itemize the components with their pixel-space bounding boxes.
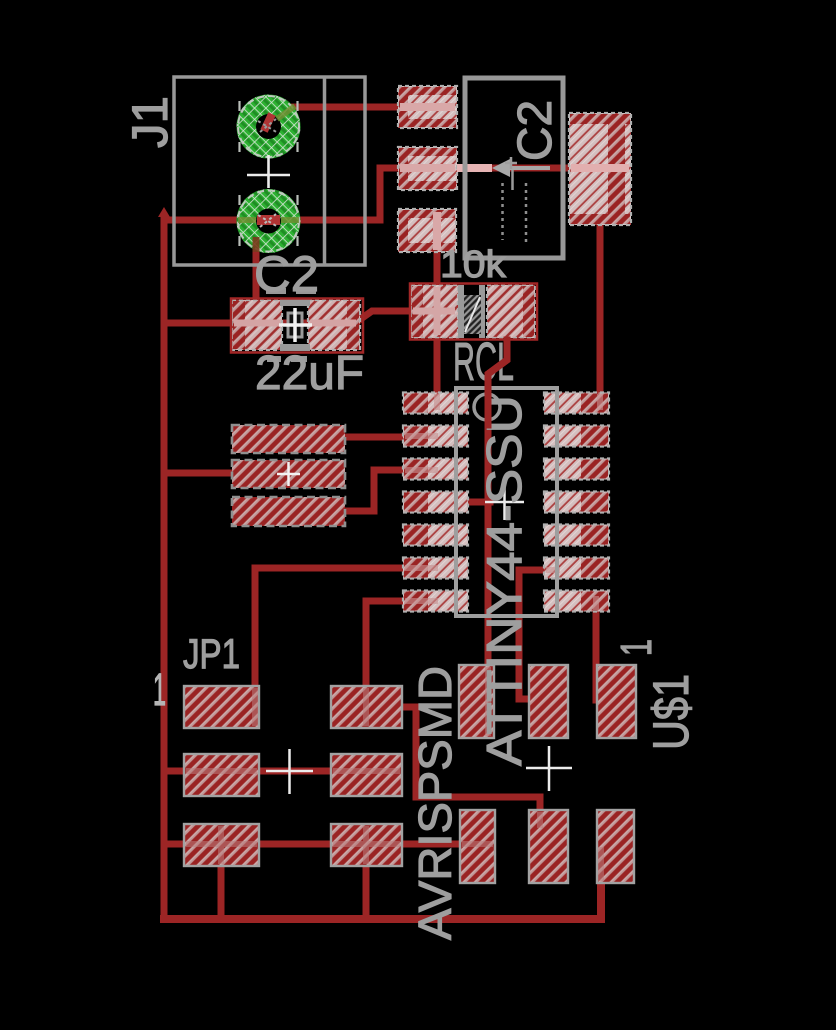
pad IC2-A <box>398 86 457 128</box>
US1 origin cross <box>526 746 572 791</box>
label 10k <box>440 244 507 286</box>
svg-text:AVRISPSMD: AVRISPSMD <box>409 666 461 940</box>
wire VCC from J1 pad1 to IC2 pad A <box>268 107 430 126</box>
junction arrow at GND corner <box>158 207 170 217</box>
IC2 tiny text columns <box>503 170 527 242</box>
resistor R1 keepout outline <box>410 284 537 340</box>
svg-text:1: 1 <box>612 639 661 656</box>
IC U1 right pads pins 8-14 <box>544 393 609 612</box>
pad IC2-B <box>398 147 457 190</box>
resistor R1 right pad <box>487 285 535 338</box>
IC2 polarity arrow <box>492 159 550 177</box>
J1 pad 1 through-hole <box>237 95 301 159</box>
wire GND left rail vertical <box>161 216 168 919</box>
resistor R1 silkscreen center <box>458 285 485 338</box>
resonator Q1 center cross <box>277 462 300 486</box>
capacitor C2 silkscreen <box>266 288 316 362</box>
label ATTINY44-SSU rotated <box>478 395 532 766</box>
trace highlight over C2 pads <box>234 320 356 327</box>
resonator Q1 pad1 <box>232 425 345 453</box>
svg-text:1: 1 <box>153 664 166 715</box>
label JP1 <box>183 630 240 677</box>
wire JP1 bottom row to US1 pad B1 <box>164 841 477 848</box>
wire U1 pin8 to US1 pad T3 <box>593 612 600 700</box>
trace highlights over US1 pads <box>462 667 601 881</box>
wire GND from J1 pad2 to IC2 pad B riser <box>164 168 612 220</box>
wire R1 right pad down to US1 pad T1 <box>488 336 507 700</box>
pad IC2-C <box>398 209 456 252</box>
JP1 origin cross <box>266 749 313 794</box>
wire Q1 pad2 to GND rail <box>164 470 238 477</box>
IC U1 origin cross <box>485 484 524 520</box>
trace highlight over IC2 pad B <box>400 164 492 172</box>
svg-text:JP1: JP1 <box>183 630 240 677</box>
wire Q1 pad3 to U1 pin3 <box>341 470 428 511</box>
wire Q1 pad1 to U1 pin2 <box>341 434 428 441</box>
label RCL <box>453 332 514 392</box>
wire U1 pin4 stub <box>468 499 490 506</box>
header JP1 pads <box>184 686 402 866</box>
capacitor C2 left pad <box>232 300 282 350</box>
wire JP1 pad5 drop <box>218 862 225 919</box>
connector US1 top pads <box>459 665 636 738</box>
label C2 (IC2) rotated <box>509 100 562 161</box>
label 1 (JP1 pin1) <box>153 664 166 715</box>
IC2 plus mark <box>505 157 517 169</box>
silkscreen circle below RCL <box>474 394 500 420</box>
trace highlight over IC2 pad C <box>433 212 441 250</box>
wire J1 pad2 to C2 left pad <box>256 221 268 312</box>
resonator Q1 pad2 <box>232 460 345 488</box>
svg-text:22uF: 22uF <box>255 347 364 400</box>
pad IC2 tab <box>569 113 631 225</box>
wire JP1 pad6 drop <box>363 862 370 919</box>
wire U1 pin9 to US1 pad T2 <box>519 570 558 699</box>
capacitor C2 keepout outline <box>231 299 363 353</box>
wire IC2 tab to U1 pin14 <box>597 222 604 403</box>
trace highlight over IC2 pad A <box>400 103 455 111</box>
trace highlight over IC2 tab <box>571 164 629 172</box>
IC2 silkscreen body <box>465 78 563 258</box>
trace highlights over JP1 pads <box>186 688 400 864</box>
wire U1 pin6 to JP1 pad1 <box>255 568 428 700</box>
capacitor C2 center cross <box>279 308 312 342</box>
svg-text:10k: 10k <box>440 244 507 286</box>
label AVRISPSMD rotated <box>409 666 461 940</box>
label 22uF <box>255 347 364 400</box>
resistor R1 left pad <box>411 285 458 338</box>
resonator Q1 pad3 <box>232 497 345 526</box>
label J1 <box>122 96 178 148</box>
svg-text:ATTINY44-SSU: ATTINY44-SSU <box>478 395 532 766</box>
IC U1 left pads pins 1-7 <box>403 393 468 612</box>
wire GND bottom rail to US1 pad B3 <box>164 879 601 919</box>
capacitor C2 right pad <box>308 300 360 350</box>
label U$1 rotated <box>643 674 699 750</box>
label 1 (US1 pin1) rotated <box>612 639 661 656</box>
J1 origin cross <box>247 155 290 188</box>
trace highlight over R1 left pad <box>413 287 455 335</box>
IC U1 silkscreen outline <box>456 388 557 616</box>
svg-text:C2: C2 <box>509 100 562 161</box>
svg-text:C2: C2 <box>254 246 319 302</box>
wire IC2 pad C to R1 left pad <box>434 228 441 292</box>
J1 pad 2 through-hole <box>237 189 301 253</box>
wire GND branch to C2 left pad and 10k R1 left pad <box>164 311 445 323</box>
J1 silkscreen outline <box>174 77 365 265</box>
wire JP1 middle row <box>164 768 396 775</box>
trace highlights over U1 pads <box>405 394 600 610</box>
label C2 <box>254 246 319 302</box>
svg-text:J1: J1 <box>122 96 178 148</box>
wire R1 left pad to U1 pin1 <box>434 336 441 403</box>
svg-text:U$1: U$1 <box>643 674 699 750</box>
wire U1 pin7 to JP1 pad2 <box>366 601 428 700</box>
wire JP1 pad2 to US1 pad B2 <box>402 707 540 816</box>
wire overlay R1 right pad over RCL label <box>488 340 507 425</box>
connector US1 bottom pads <box>460 810 634 883</box>
